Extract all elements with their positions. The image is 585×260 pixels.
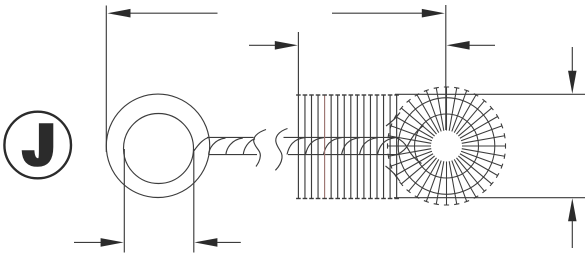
dimension D1 right arrowhead [422,9,445,18]
dimension D4 left arrowhead pointing right [101,238,124,247]
dimension D1 left arrowhead [107,9,130,18]
bristle section vertical lines with tip bars [298,95,396,199]
wire twist junction into round brush [396,138,422,164]
extension line E7 bottom of brush diameter [394,197,585,199]
dimension D2 right tail [469,44,495,46]
extension line E4 ring inner diameter left [123,149,125,253]
dimension D1 right segment [332,12,423,14]
dimension D1 overall length line left segment [129,12,218,14]
break squiggle 1 [254,130,266,167]
ring handle outer circle [106,94,209,197]
view marker circle J [4,112,71,179]
dimension D2 brush-length line left tail [249,44,277,46]
wire shaft bottom line before break [209,154,257,156]
round brush concentric circle outer [398,98,495,195]
extension line E6 top of brush diameter [395,93,585,95]
wire shaft top line before break [207,136,254,138]
dimension D3 bottom arrowhead pointing up [568,198,577,221]
round brush concentric circle inner [415,114,479,178]
extension line E3 at start of bristle section [297,32,299,95]
dimension D4 left tail [74,241,102,243]
shaft twist hatch arcs inside bristle section [287,138,305,155]
dimension D2 right arrowhead pointing left [447,41,470,50]
wire shaft top line after break [284,136,397,138]
ring handle inner circle [124,114,194,184]
wire wrap curve from inner ring to shaft top [194,138,209,151]
break squiggle 2 [275,129,287,171]
shaft twist hatch arcs before break [209,138,226,155]
bristle tip bars top [296,94,399,96]
dimension D4 right tail [217,241,241,243]
extension line E5 ring inner diameter right [193,149,195,253]
red bristle strand [324,95,326,199]
extension line E1 left of overall dimension [105,6,107,153]
bristle tip bars bottom [296,198,399,200]
dimension D4 right arrowhead pointing left [194,238,217,247]
dimension D3 vertical bottom tail [571,221,573,248]
extension/center line E2 through round brush center [445,5,447,130]
dimension D3 vertical top tail [571,47,573,72]
letter J [22,123,54,167]
round brush radial bristles [388,87,506,205]
wire shaft bottom line after break [288,154,397,156]
dimension D3 top arrowhead pointing down [568,71,577,94]
round brush bristle tip bars [388,87,506,205]
dimension D2 left arrowhead pointing right [275,41,298,50]
